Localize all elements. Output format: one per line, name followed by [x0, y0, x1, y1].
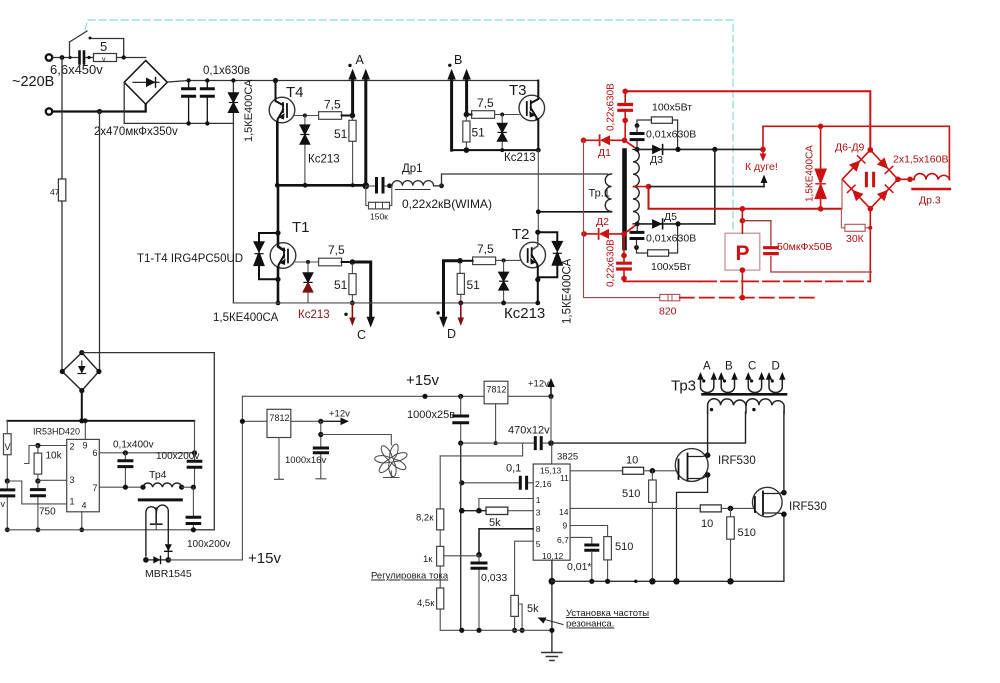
svg-text:9: 9: [83, 441, 88, 451]
red top rail to output bridge: [625, 91, 870, 149]
divider 8,2k: [440, 443, 522, 456]
svg-text:+12v: +12v: [528, 379, 549, 390]
svg-text:0,01*: 0,01*: [567, 561, 592, 573]
svg-text:Др1: Др1: [402, 163, 423, 175]
+12v arrow right: [321, 420, 342, 422]
svg-text:Установка частоты: Установка частоты: [566, 608, 649, 619]
ground pin 7812 control: [495, 404, 497, 443]
wire D1 node to secondary top (red): [625, 140, 638, 149]
inductor Dr3: [914, 174, 950, 180]
svg-text:14: 14: [559, 507, 569, 517]
svg-text:1000х16v: 1000х16v: [285, 455, 326, 466]
svg-text:10,12: 10,12: [542, 551, 564, 561]
diode D2: [584, 233, 624, 235]
+12v rail to Tr3: [551, 412, 746, 443]
svg-text:Т1: Т1: [292, 219, 310, 236]
svg-text:0,1х400v: 0,1х400v: [113, 440, 154, 451]
svg-text:Кс213: Кс213: [298, 309, 330, 321]
svg-text:100х5Вт: 100х5Вт: [651, 261, 691, 273]
phase A rail: [277, 184, 366, 187]
wire D5 output up to D3 line: [714, 149, 716, 224]
svg-text:51: 51: [467, 278, 481, 292]
diode D3: [637, 148, 763, 150]
varistor V: [6, 421, 8, 434]
svg-text:Кс213: Кс213: [504, 152, 536, 164]
svg-text:Тр4: Тр4: [149, 469, 167, 481]
svg-text:D: D: [447, 327, 456, 341]
svg-text:7: 7: [93, 483, 98, 493]
svg-text:Д2: Д2: [596, 216, 609, 228]
wire upper terminal to cap: [53, 57, 79, 59]
resistor 30K: [841, 209, 870, 228]
svg-text:6: 6: [93, 448, 98, 458]
svg-text:Др.3: Др.3: [919, 195, 941, 207]
svg-text:A: A: [703, 361, 711, 373]
diode D9 bottom-right: [877, 190, 888, 202]
control dashed line (cyan): [85, 20, 733, 231]
resistor 5 (fuse): [94, 54, 117, 62]
transformer Tr1 core: [622, 151, 627, 249]
svg-text:510: 510: [615, 541, 633, 553]
svg-text:2х470мкФх350v: 2х470мкФх350v: [94, 126, 178, 138]
svg-text:3825: 3825: [557, 452, 578, 463]
Tr3 primary winding 1: [708, 399, 746, 413]
capacitor 1000x16v: [316, 421, 326, 479]
svg-text:51: 51: [472, 126, 486, 140]
wire left red link D1-D2: [583, 140, 585, 234]
svg-text:1: 1: [536, 495, 541, 505]
capacitor 2x470 #1: [188, 81, 190, 124]
capacitor 2x470 #2: [206, 81, 208, 124]
ground symbol: [542, 653, 562, 661]
diode D6 top-left: [849, 160, 860, 172]
svg-text:+15v: +15v: [248, 550, 281, 567]
rail B emitter: [452, 149, 539, 151]
node junction upper: [60, 55, 65, 60]
svg-text:0,01х630В: 0,01х630В: [646, 129, 696, 141]
transformer Tr4 core: [139, 498, 181, 501]
transil 1,5KE400CA T2: [538, 232, 558, 277]
wire pin8: [479, 529, 533, 555]
snubber cap 0,01x630V top: [636, 126, 638, 150]
resistor 51 T2: [459, 261, 461, 274]
capacitor 0,033: [478, 555, 480, 631]
svg-text:9: 9: [563, 521, 568, 531]
wire pin11: [570, 470, 623, 472]
svg-text:+12v: +12v: [329, 409, 350, 420]
svg-text:47: 47: [50, 187, 60, 197]
svg-text:7812: 7812: [487, 385, 507, 395]
svg-text:2х1,5х160В: 2х1,5х160В: [893, 154, 948, 166]
zener Kc213 T2: [503, 260, 505, 303]
wire +12v to pin 15,13: [550, 396, 553, 464]
diode D7 top-right: [877, 157, 888, 169]
capacitor 100x200v bottom: [192, 487, 194, 530]
svg-text:D: D: [772, 361, 780, 373]
emitter rail C-D: [233, 302, 537, 304]
svg-text:C: C: [748, 361, 756, 373]
resistor 4,5k: [437, 588, 444, 609]
transil 1,5KE400CA input: [232, 81, 234, 303]
minus rail: [124, 122, 233, 124]
svg-text:7,5: 7,5: [477, 242, 494, 256]
svg-text:1: 1: [70, 497, 75, 507]
wire resistor to bridge: [117, 57, 146, 59]
center tap: [151, 508, 162, 524]
red minus rail (dashed): [624, 280, 700, 282]
svg-text:510: 510: [738, 527, 756, 539]
svg-text:7812: 7812: [270, 413, 290, 423]
svg-text:1,5КЕ400СА: 1,5КЕ400СА: [243, 79, 255, 142]
svg-text:1,5КЕ400СА: 1,5КЕ400СА: [805, 145, 816, 202]
SEC_IGBT: [137, 53, 608, 342]
arrow A gate (thick up): [351, 79, 354, 116]
svg-text:0,22х630В: 0,22х630В: [606, 83, 617, 131]
snubber cap 0,01x630V bottom: [636, 224, 639, 248]
svg-text:4: 4: [82, 501, 87, 511]
wire lower input down: [99, 112, 101, 372]
svg-text:B: B: [725, 361, 733, 373]
resistor 10 gate1: [623, 467, 644, 474]
svg-text:5k: 5k: [489, 517, 501, 529]
red center-tap power line: [649, 187, 842, 209]
wire +15 gnd vertical: [460, 443, 462, 630]
capacitor 50uFx50V: [742, 221, 871, 272]
arrow to arc (red down): [762, 126, 764, 149]
resistor 51 T1: [351, 262, 353, 274]
wire pin3: [38, 479, 67, 481]
source1 to ground: [677, 475, 708, 581]
ground pin 7812: [275, 438, 284, 480]
resistor 7,5 T2: [473, 257, 496, 265]
center tap wire: [634, 186, 649, 188]
svg-text:Кс213: Кс213: [504, 305, 545, 322]
wire primary bottom: [538, 211, 611, 213]
svg-text:7,5: 7,5: [477, 96, 494, 110]
wire aux bridge plus down: [81, 391, 83, 421]
svg-text:1,5КЕ400СА: 1,5КЕ400СА: [213, 312, 279, 324]
svg-text:1,5КЕ400СА: 1,5КЕ400СА: [562, 258, 574, 324]
feedback line with 820: [584, 234, 660, 298]
zener Kc213 T4: [304, 116, 306, 186]
svg-text:820: 820: [659, 306, 677, 318]
svg-text:7,5: 7,5: [324, 98, 341, 112]
svg-text:Р: Р: [736, 242, 750, 265]
regulator 7812 control: [484, 381, 508, 404]
svg-text:0,033: 0,033: [481, 572, 507, 584]
svg-text:0,1х630в: 0,1х630в: [203, 65, 250, 77]
SEC_AUX: [1, 350, 461, 580]
wire T1 emitter: [277, 268, 280, 303]
ground stem: [551, 560, 553, 652]
svg-text:Регулировка тока: Регулировка тока: [371, 571, 449, 582]
svg-text:~220В: ~220В: [12, 74, 54, 90]
svg-text:1000х25в: 1000х25в: [407, 409, 455, 421]
svg-text:5: 5: [100, 39, 107, 54]
wire T4 emitter to phase A rail: [276, 123, 279, 185]
svg-text:30К: 30К: [846, 233, 865, 245]
transil 1,5KE400CA output: [820, 126, 822, 209]
svg-text:Т1-Т4 IRG4PC50UD: Т1-Т4 IRG4PC50UD: [137, 253, 243, 265]
arrow A emitter (thick up): [364, 79, 367, 186]
svg-text:Т3: Т3: [509, 82, 527, 99]
resistor 5k pins 1,3: [508, 510, 533, 512]
svg-text:резонанса.: резонанса.: [566, 619, 614, 630]
zener Kc213 T1: [307, 262, 309, 303]
svg-text:3: 3: [70, 475, 75, 485]
arrow B gate (thick up): [465, 79, 468, 115]
wire T3 gate: [493, 114, 519, 116]
svg-text:0,01х630В: 0,01х630В: [646, 233, 696, 245]
svg-text:0,22х2кВ(WIMA): 0,22х2кВ(WIMA): [402, 197, 492, 211]
resistor 510 gate1: [651, 471, 653, 480]
svg-text:100х200v: 100х200v: [187, 539, 230, 550]
svg-text:B: B: [454, 53, 462, 67]
transformer Tr4 secondary: [146, 505, 168, 556]
arrow B emitter (thick up): [450, 79, 453, 150]
svg-text:IRF530: IRF530: [789, 501, 827, 513]
+15v output wire: [168, 396, 242, 560]
svg-text:50мкФх50В: 50мкФх50В: [777, 241, 832, 253]
wire pin4 to ground rail: [81, 512, 83, 530]
resistor 51 T3: [465, 115, 467, 122]
diode D5: [637, 223, 715, 225]
svg-text:10k: 10k: [46, 451, 63, 462]
svg-text:470х12v: 470х12v: [508, 425, 550, 437]
wire bridge right to inductor: [898, 178, 914, 180]
capacitor 750: [37, 481, 39, 530]
wire cap to resistor: [86, 57, 94, 59]
SEC_PWM: [371, 361, 827, 661]
svg-text:Д6-Д9: Д6-Д9: [835, 142, 865, 154]
zener Kc213 T3: [501, 115, 503, 151]
wire T3 emitter down to B rail: [537, 119, 539, 150]
svg-text:6,6x450v: 6,6x450v: [50, 62, 103, 77]
red rail upper right: [763, 126, 949, 179]
transformer Tr1 secondary: [633, 149, 639, 223]
svg-text:3: 3: [536, 508, 541, 518]
svg-text:4,5к: 4,5к: [417, 598, 435, 609]
svg-text:750: 750: [39, 507, 56, 518]
resistor 10 gate2: [700, 505, 721, 512]
bridge rectifier input: [124, 61, 167, 105]
resistor 7,5 T1: [319, 258, 342, 266]
svg-text:Т2: Т2: [512, 226, 530, 243]
resistor 510 pin9: [604, 537, 612, 560]
transil 1,5KE400CA T1: [259, 233, 278, 279]
wire to fan: [321, 435, 392, 446]
svg-text:IR53HD420: IR53HD420: [33, 427, 80, 437]
wire T1 gate: [296, 261, 319, 263]
svg-text:51: 51: [334, 127, 348, 141]
resistor 7,5 T3: [472, 111, 495, 119]
capacitor 0,01*: [586, 545, 598, 550]
+12v arrow up: [550, 385, 552, 396]
arrow D emitter (red thin down): [460, 303, 462, 318]
snubber cap WIMA 0,22x2kV: [366, 185, 375, 187]
wire bridge minus down: [123, 82, 125, 123]
svg-text:2: 2: [70, 442, 75, 452]
aux ground rail: [5, 529, 214, 531]
svg-text:Д1: Д1: [598, 147, 611, 159]
drain2 riser: [783, 412, 785, 493]
capacitor 6,6x450v: [80, 52, 85, 64]
bridge rectifier aux: [62, 353, 99, 391]
SEC_INPUT: [12, 20, 733, 371]
svg-text:Тр3: Тр3: [671, 378, 696, 395]
wire pin14: [570, 507, 700, 509]
svg-text:Д3: Д3: [650, 154, 663, 166]
svg-text:0,22х630В: 0,22х630В: [606, 239, 617, 287]
wire P bottom: [741, 270, 743, 298]
wire pin2: [38, 445, 67, 447]
wire pin1: [479, 499, 533, 511]
wire T4 gate: [295, 115, 319, 117]
wire pin9: [570, 526, 608, 537]
svg-text:V: V: [5, 442, 11, 452]
svg-text:10: 10: [701, 518, 713, 530]
diode MBR1545 vertical: [167, 541, 169, 560]
svg-text:510: 510: [622, 488, 640, 500]
regulator 7812 fan: [267, 409, 291, 437]
aux plus rail: [7, 420, 194, 422]
caps 2x1,5x160V inside bridge: [866, 173, 873, 186]
Tr3 primary winding 2: [746, 399, 784, 413]
wire T2 gate: [496, 259, 520, 261]
wire aux AC top to ground riser: [82, 352, 215, 354]
svg-text:100х5Вт: 100х5Вт: [652, 102, 692, 114]
ground riser wire: [194, 353, 214, 530]
svg-text:150к: 150к: [370, 212, 388, 222]
svg-text:5k: 5k: [527, 603, 539, 615]
resistor 47: [61, 58, 63, 180]
+15v rail top: [242, 395, 460, 397]
capacitor 0,22x630V top: [624, 91, 626, 140]
svg-text:11: 11: [560, 473, 569, 483]
svg-text:0,1: 0,1: [506, 463, 521, 475]
drain1 riser: [707, 412, 709, 455]
resistor 150k: [366, 186, 392, 206]
wire lower terminal to bridge: [53, 104, 146, 111]
wire pin6: [99, 452, 194, 454]
potentiometer 1k: [437, 546, 444, 566]
fan: [374, 443, 408, 477]
svg-text:+15v: +15v: [406, 372, 439, 389]
svg-text:A: A: [356, 53, 365, 67]
svg-text:10: 10: [626, 455, 638, 467]
arrow C emitter (red thin down): [351, 303, 353, 318]
resistor 5k freq: [511, 595, 519, 616]
svg-text:Кс213: Кс213: [308, 154, 340, 166]
input terminal upper: [46, 54, 52, 60]
svg-text:2,16: 2,16: [535, 479, 552, 489]
ground line driver: [552, 514, 784, 581]
svg-text:Д5: Д5: [664, 211, 677, 223]
wire D2 node to secondary bottom (red): [624, 224, 637, 234]
arrow to arc (black up): [763, 180, 765, 187]
diode D8 bottom-left: [852, 190, 863, 202]
svg-text:MBR1545: MBR1545: [145, 568, 192, 580]
resistor 820 dashed wire: [680, 297, 816, 299]
wire pin1: [7, 481, 66, 504]
svg-text:К дуге!: К дуге!: [745, 161, 778, 173]
svg-text:15,13: 15,13: [540, 466, 562, 476]
capacitor input aux: [6, 481, 8, 530]
wire T2 emitter: [537, 267, 539, 303]
svg-text:5: 5: [536, 539, 541, 549]
wire pin7: [99, 486, 143, 488]
svg-text:8,2к: 8,2к: [416, 513, 434, 524]
svg-text:v: v: [1, 499, 6, 509]
diode MBR1545 horizontal: [143, 557, 149, 563]
SEC_OUTPUT: [538, 83, 950, 318]
capacitor 0,22x630V bottom: [623, 234, 625, 282]
resistor 7,5 T4: [319, 112, 342, 120]
plus rail top: [167, 81, 538, 83]
svg-text:C: C: [357, 328, 366, 342]
arrow D gate (thick down): [444, 261, 461, 317]
arrow C gate (thick down): [352, 262, 370, 317]
svg-text:6,7: 6,7: [557, 535, 569, 545]
wire bridge bottom down: [869, 209, 871, 282]
resistor 510 gate2: [730, 508, 732, 516]
svg-text:7,5: 7,5: [328, 243, 345, 257]
svg-text:v: v: [102, 57, 106, 64]
control unit P: [725, 233, 760, 270]
input terminal lower: [46, 108, 52, 114]
svg-text:8: 8: [536, 524, 541, 534]
diode D1: [584, 139, 625, 141]
svg-text:IRF530: IRF530: [718, 455, 756, 467]
bypass switch: [70, 31, 124, 58]
svg-text:51: 51: [334, 278, 348, 292]
wire pin5: [515, 541, 534, 595]
wire pin6,7: [570, 537, 592, 543]
wire pin9 to plus rail: [84, 421, 86, 440]
wire B node down to T2: [537, 150, 539, 232]
svg-text:1к: 1к: [423, 554, 433, 565]
Tr3 core: [703, 393, 787, 396]
resistor 51 T4: [351, 116, 353, 121]
